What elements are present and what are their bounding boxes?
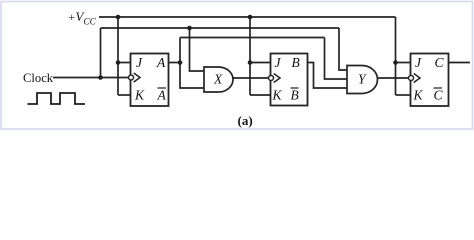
clock waveform symbol <box>28 93 86 104</box>
svg-text:B: B <box>291 88 299 103</box>
node: J3 branch junction <box>393 60 398 65</box>
flip-flop U2 body <box>271 54 308 106</box>
wire: clock rail (y=28) <box>101 27 340 29</box>
svg-text:A: A <box>157 88 167 103</box>
flip-flop U1 body <box>131 54 169 107</box>
node: clock branch junction <box>98 75 103 80</box>
svg-text:CC: CC <box>84 17 97 27</box>
wire: clock drop to X gate upper input (x=189.5) <box>190 28 205 71</box>
U3 dynamic clock indicator <box>414 74 420 83</box>
node: J2 branch junction <box>248 60 253 65</box>
U2 dynamic clock indicator <box>274 74 280 83</box>
wire: A output to junction <box>169 62 181 64</box>
svg-text:J: J <box>415 55 422 70</box>
+Vcc label <box>69 10 97 27</box>
svg-text:B: B <box>292 55 300 70</box>
flip-flop U3 body <box>411 54 449 107</box>
node: Vcc junction at x=250 <box>248 15 253 20</box>
U1 dynamic clock indicator <box>134 73 140 82</box>
wire: X gate output to FF2 clock <box>233 77 268 79</box>
wire: Vcc drop to FF2 J/K (vertical x=250) <box>249 17 251 95</box>
svg-text:C: C <box>435 55 445 70</box>
U1 clock bubble <box>129 75 134 80</box>
wire: clock riser to clock rail (x=100.5) <box>100 28 102 78</box>
U3 clock bubble <box>409 76 414 81</box>
node: A output junction <box>178 60 183 65</box>
svg-text:K: K <box>413 88 424 103</box>
wire: +Vcc rail (top horizontal) <box>99 16 396 18</box>
svg-text:J: J <box>136 55 143 70</box>
U2 clock bubble <box>269 76 274 81</box>
wire: K2 input stub <box>250 94 271 96</box>
page frame (decorative) <box>1 2 473 130</box>
wire: clock line from label to FF1 clock <box>53 77 128 79</box>
node: clock rail junction at x=189.5 <box>187 26 192 31</box>
AND gate Y body <box>347 66 377 94</box>
wire: A rail (y=37.5) <box>180 37 325 39</box>
svg-text:K: K <box>134 88 145 103</box>
wire: Vcc drop to FF1 J/K (vertical x=118) <box>117 17 119 95</box>
svg-text:X: X <box>213 72 223 87</box>
AND gate X body <box>204 67 233 92</box>
node: Vcc junction at x=118 <box>116 15 121 20</box>
wire: A drop to X gate lower input <box>180 63 204 89</box>
node: J1 branch junction <box>116 60 121 65</box>
wire: clock drop to Y gate upper input (x=339) <box>339 28 347 70</box>
svg-text:C: C <box>434 88 444 103</box>
wire: K3 input stub <box>396 94 411 96</box>
svg-text:J: J <box>275 55 282 70</box>
wire: J3 input stub <box>396 62 411 64</box>
wire: Vcc corner drop to FF3 J/K (x=395.5) <box>395 17 397 95</box>
wire: Y gate output to FF3 clock <box>378 77 408 79</box>
wire: A drop to Y gate middle input (x=324.5) <box>325 38 348 80</box>
svg-text:Clock: Clock <box>23 71 54 85</box>
svg-text:K: K <box>272 88 283 103</box>
svg-text:(a): (a) <box>238 113 253 128</box>
wire: J1 input stub <box>118 62 131 64</box>
svg-text:A: A <box>156 55 166 70</box>
svg-text:+: + <box>69 12 76 24</box>
wire: B output down to Y gate lower input <box>308 63 348 89</box>
wire: C output <box>449 62 471 64</box>
wire: J2 input stub <box>250 62 271 64</box>
wire: A riser to A rail <box>179 38 181 63</box>
svg-text:Y: Y <box>358 72 367 87</box>
wire: K1 input stub <box>118 94 131 96</box>
